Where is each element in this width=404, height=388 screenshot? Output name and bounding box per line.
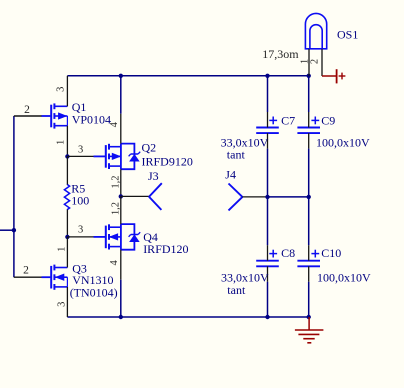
transistor Q2 — [106, 144, 140, 170]
svg-text:100: 100 — [71, 194, 89, 208]
capacitor C8 — [256, 250, 279, 267]
pin Q2 pin4 — [120, 114, 122, 144]
svg-text:J3: J3 — [148, 169, 159, 183]
node mid-C7 junction — [265, 195, 269, 199]
label C7 value — [221, 135, 269, 149]
label Q1 pin3 — [56, 87, 67, 92]
label C7 designator — [281, 114, 295, 128]
svg-text:2: 2 — [310, 59, 321, 64]
wire C7 bottom net — [267, 149, 269, 197]
pin OS1 pin1 — [308, 49, 310, 76]
label lamp value 17,3om — [262, 47, 299, 61]
svg-text:IRFD9120: IRFD9120 — [142, 154, 193, 168]
svg-text:J4: J4 — [225, 167, 236, 181]
svg-text:1,2: 1,2 — [110, 202, 121, 215]
lamp OS1 — [305, 13, 326, 48]
pin OS1 pin2 — [321, 49, 323, 76]
label C8 value — [221, 271, 269, 285]
label Q2 pin1-2 — [110, 175, 121, 188]
pin R5 bottom — [66, 210, 68, 237]
label Q2 pin3 — [78, 145, 83, 156]
label Q3 designator — [72, 261, 87, 275]
label Q3 pin2 — [23, 265, 29, 277]
pin C8 bottom — [267, 266, 269, 282]
label R5 designator — [71, 181, 85, 195]
pin Q3 pin3 source — [66, 287, 68, 317]
transistor Q3 — [51, 265, 67, 290]
wire Q2 gate lead — [67, 155, 105, 157]
label C8 value2 — [227, 283, 246, 297]
label C9 designator — [321, 114, 335, 128]
label Q1 pin2 — [24, 104, 30, 116]
wire Q4 source net — [120, 280, 122, 317]
label J4 — [225, 167, 236, 181]
svg-text:2: 2 — [23, 265, 29, 277]
connector J4 arrow — [229, 184, 243, 211]
label OS1 pin1 — [299, 59, 310, 64]
label Q3 pin1 — [57, 247, 68, 252]
label J3 — [148, 169, 159, 183]
pin C10 top — [308, 245, 310, 261]
pin C7 bottom — [267, 133, 269, 149]
svg-text:3: 3 — [56, 87, 67, 92]
label R5 value — [71, 194, 89, 208]
pin Q3 pin1 drain — [66, 237, 68, 268]
transistor Q4 — [106, 224, 140, 250]
node mid-C9 junction — [307, 195, 311, 199]
connector J3 arrow — [149, 183, 162, 210]
resistor R5 — [64, 184, 69, 210]
label Q1 value — [72, 113, 111, 127]
node rail-C7 junction — [265, 74, 269, 78]
svg-text:1: 1 — [57, 247, 68, 252]
pin Q4 pin4 — [120, 250, 122, 280]
label Q4 designator — [143, 230, 158, 244]
label C10 value — [317, 271, 371, 285]
label OS1 designator — [337, 28, 358, 42]
svg-text:C8: C8 — [281, 246, 295, 260]
label C9 value — [316, 135, 370, 149]
wire left vertical net — [13, 116, 15, 277]
wire C8 bottom net — [267, 282, 269, 317]
node Q1-R5-Q2gate junction — [65, 154, 69, 158]
pin Q1 pin1 source — [66, 126, 68, 157]
wire Q3 gate lead — [14, 276, 51, 278]
node bottom-C8 junction — [265, 315, 269, 319]
wire C7 top net — [267, 76, 269, 112]
wire bottom rail — [67, 316, 309, 318]
capacitor C10 — [297, 250, 320, 267]
svg-text:3: 3 — [78, 225, 83, 236]
svg-text:3: 3 — [78, 145, 83, 156]
wire C10 bottom net — [308, 282, 310, 317]
pin J3 — [121, 195, 149, 197]
svg-text:C9: C9 — [321, 114, 335, 128]
label C10 designator — [321, 246, 341, 260]
node left stub junction — [12, 228, 16, 232]
capacitor C7 — [256, 117, 279, 134]
pin Q4 pin1-2 — [120, 196, 122, 224]
label Q4 value — [143, 242, 188, 256]
svg-text:4: 4 — [109, 260, 120, 266]
label Q3 pin3 — [57, 302, 68, 307]
svg-text:17,3om: 17,3om — [262, 47, 299, 61]
wire Q2 drain net — [120, 76, 122, 114]
ground — [295, 317, 324, 343]
wire C9 top net — [308, 76, 310, 112]
pin C10 bottom — [308, 266, 310, 282]
pin R5 top — [66, 156, 68, 184]
svg-text:1: 1 — [56, 140, 67, 145]
svg-text:(TN0104): (TN0104) — [70, 285, 118, 299]
pin C9 bottom — [308, 133, 310, 149]
label Q2 designator — [142, 140, 157, 154]
svg-text:VP0104: VP0104 — [72, 113, 111, 127]
svg-text:IRFD120: IRFD120 — [143, 242, 188, 256]
node J3 junction — [119, 194, 123, 198]
label Q2 pin4 — [109, 121, 120, 127]
wire C8 top net — [267, 197, 269, 245]
svg-text:tant: tant — [227, 148, 246, 162]
label C7 value2 — [227, 148, 246, 162]
label Q4 pin3 — [78, 225, 83, 236]
pin C7 top — [267, 112, 269, 128]
wire left stub — [0, 229, 14, 231]
pin J4 — [242, 196, 267, 198]
label Q2 value — [142, 154, 193, 168]
svg-text:C10: C10 — [321, 246, 341, 260]
node bottom-C10-ground junction — [307, 315, 311, 319]
power +V port — [322, 69, 345, 83]
capacitor C9 — [297, 117, 320, 134]
svg-text:2: 2 — [24, 104, 30, 116]
svg-text:tant: tant — [227, 283, 246, 297]
svg-text:4: 4 — [109, 121, 120, 127]
wire C9 bottom net — [308, 149, 310, 197]
node rail-C9 junction — [307, 74, 311, 78]
svg-text:3: 3 — [57, 302, 68, 307]
svg-text:C7: C7 — [281, 114, 295, 128]
svg-text:Q2: Q2 — [142, 140, 157, 154]
wire middle rail — [268, 196, 309, 198]
transistor Q1 — [51, 103, 67, 128]
label OS1 pin2 — [310, 59, 321, 64]
pin Q2 pin1-2 — [120, 169, 122, 196]
label Q1 pin1 — [56, 140, 67, 145]
svg-text:OS1: OS1 — [337, 28, 358, 42]
label Q4 pin4 — [109, 260, 120, 266]
node rail-Q2 junction — [119, 74, 123, 78]
svg-text:1,2: 1,2 — [110, 175, 121, 188]
svg-text:100,0x10V: 100,0x10V — [317, 271, 371, 285]
svg-text:100,0x10V: 100,0x10V — [316, 135, 370, 149]
label Q3 value2 — [70, 285, 118, 299]
wire Q4 gate lead — [67, 236, 105, 238]
node bottom-Q4 junction — [119, 315, 123, 319]
wire Q1 gate lead — [14, 115, 51, 117]
label Q1 designator — [72, 100, 87, 114]
pin C8 top — [267, 245, 269, 261]
label C8 designator — [281, 246, 295, 260]
wire C10 top net — [308, 197, 310, 245]
pin C9 top — [308, 112, 310, 128]
label Q3 value — [72, 273, 113, 287]
pin Q1 pin3 drain — [66, 76, 68, 107]
node Q4 gate junction — [65, 235, 69, 239]
label Q4 pin1-2 — [110, 202, 121, 215]
wire top rail — [67, 75, 308, 77]
